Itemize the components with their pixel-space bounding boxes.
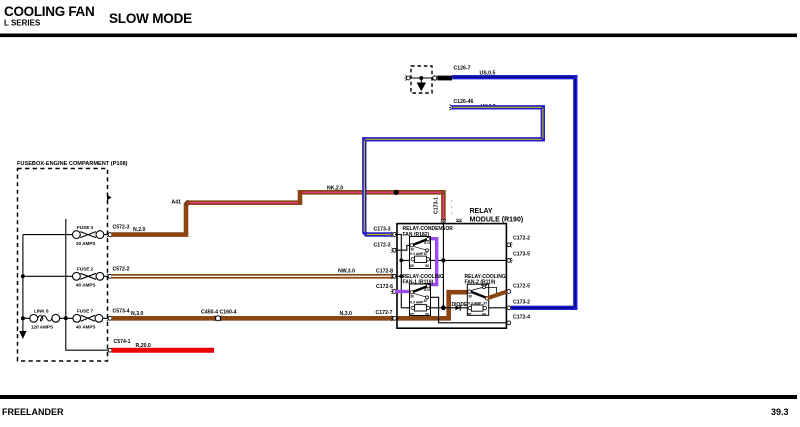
- bottom rule: [0, 395, 797, 399]
- svg-text:0.9 AMP: 0.9 AMP: [410, 300, 424, 304]
- connector C574-1: [106, 339, 130, 353]
- svg-text:20 AMPS: 20 AMPS: [76, 241, 96, 246]
- svg-text:C126-7: C126-7: [454, 66, 471, 72]
- svg-text:86: 86: [425, 264, 429, 268]
- svg-text:85: 85: [410, 264, 414, 268]
- wire internal NK riser from C173-1: [442, 222, 444, 308]
- svg-text:C173-5: C173-5: [513, 252, 530, 258]
- wire internal brown diagonal R119 87 to C172-5: [488, 292, 507, 299]
- connector C450-4 C160-4 inline: [201, 309, 237, 321]
- node NK riser coilrow: [441, 258, 445, 262]
- ground arrow in splice box: [417, 78, 425, 90]
- connector C172-6: [376, 284, 397, 294]
- node ground splice: [419, 76, 423, 80]
- relay R182: [403, 226, 454, 268]
- fusebox edge mark k: [107, 195, 112, 201]
- relay R119: [465, 274, 506, 317]
- svg-text:N,2.0: N,2.0: [133, 227, 146, 233]
- svg-text:C173-3: C173-3: [374, 227, 391, 233]
- top rule: [0, 34, 797, 38]
- svg-text:SLOW MODE: SLOW MODE: [109, 11, 192, 26]
- wire US,0.5 blue from C126-7 to C173-2: [452, 71, 575, 308]
- svg-text:C172-6: C172-6: [376, 284, 393, 290]
- svg-text:FUSE 3: FUSE 3: [77, 225, 94, 230]
- svg-text:0.2 AMP: 0.2 AMP: [410, 252, 424, 256]
- svg-text:86: 86: [482, 312, 486, 316]
- svg-text:120 AMPS: 120 AMPS: [31, 325, 53, 330]
- svg-text:MODULE (R190): MODULE (R190): [470, 217, 524, 224]
- svg-text:N,3.0: N,3.0: [340, 311, 353, 317]
- node A41: [172, 200, 191, 206]
- node midbus-link6: [64, 316, 68, 320]
- wire N,3.0 brown C573-4 to C172-7 and into relay module: [112, 292, 468, 318]
- svg-text:40 AMPS: 40 AMPS: [76, 325, 96, 330]
- connector C173-3: [374, 227, 397, 237]
- node bus-fuse2: [21, 274, 25, 278]
- svg-text:L SERIES: L SERIES: [4, 19, 41, 28]
- wire R,20.0 red C574-1 to alternator: [112, 343, 215, 350]
- svg-text:C172-4: C172-4: [513, 315, 530, 321]
- wire internal R119 87A elbow: [485, 287, 496, 293]
- black sleeve stub at C126-7: [437, 76, 452, 81]
- svg-text:C173-1: C173-1: [434, 197, 440, 214]
- title COOLING FAN: [4, 4, 94, 28]
- relay R118: [403, 274, 444, 317]
- connector stub on module top: [456, 219, 462, 222]
- relay module R190 label: [470, 208, 524, 224]
- svg-text:FUSE 7: FUSE 7: [77, 309, 94, 314]
- connector C173-1 chevron on module top: [441, 219, 447, 222]
- connector C172-5: [507, 283, 530, 293]
- svg-text:85: 85: [468, 312, 472, 316]
- svg-text:A41: A41: [172, 200, 182, 206]
- svg-text:RELAY: RELAY: [470, 208, 493, 215]
- fusebox left bus wire: [22, 235, 24, 331]
- svg-text:87A: 87A: [481, 283, 488, 287]
- svg-text:39.3: 39.3: [771, 407, 789, 417]
- wire fuse2 row: [23, 275, 108, 277]
- relay module R190 box: [397, 224, 506, 329]
- fuse FUSE 3: [73, 225, 104, 246]
- svg-text:87: 87: [424, 299, 428, 303]
- svg-text:N,3.0: N,3.0: [131, 311, 144, 317]
- wire UY,0.5 blue/yellow from C126-46 to C173-3: [364, 104, 543, 234]
- wire link6-fuse7 row: [23, 317, 108, 319]
- svg-text:C172-8: C172-8: [376, 268, 393, 274]
- svg-text:86: 86: [425, 312, 429, 316]
- wire internal C172-3 to pin30 R182: [395, 245, 410, 250]
- svg-text:C172-3: C172-3: [374, 242, 391, 248]
- svg-text:85: 85: [410, 312, 414, 316]
- fusebox bus arrow: [19, 331, 26, 339]
- ghost dashed stub above module: [451, 200, 453, 216]
- wire fuse3 row: [23, 234, 108, 236]
- svg-text:C572-3: C572-3: [113, 225, 130, 231]
- connector C172-7: [376, 310, 397, 321]
- connector C572-3: [106, 225, 129, 238]
- svg-text:FREELANDER: FREELANDER: [2, 407, 64, 417]
- svg-text:30: 30: [410, 247, 414, 251]
- svg-text:FUSEBOX-ENGINE COMPARMENT (P10: FUSEBOX-ENGINE COMPARMENT (P108): [17, 161, 128, 167]
- node riser-coilrow R182: [399, 259, 403, 263]
- svg-text:LINK 6: LINK 6: [34, 309, 49, 314]
- svg-text:40 AMPS: 40 AMPS: [76, 283, 96, 288]
- connector C172-8: [376, 268, 397, 279]
- wire internal purple link R182 87A to R118 87A: [429, 239, 437, 285]
- wire NW,3.0 brown/white C572-2 to C172-8: [112, 268, 394, 276]
- svg-text:C172-2: C172-2: [513, 236, 530, 242]
- wire internal C172-8 stub: [395, 275, 401, 277]
- node bus-link6: [21, 316, 25, 320]
- diode D1: [452, 302, 469, 311]
- wire N,2.0 brown from C572-3 to A41: [112, 203, 187, 235]
- svg-text:C572-2: C572-2: [113, 266, 130, 272]
- svg-text:C450-4 C160-4: C450-4 C160-4: [201, 309, 237, 315]
- svg-text:30: 30: [410, 294, 414, 298]
- node riser-C172-8: [399, 274, 403, 278]
- svg-text:87: 87: [484, 301, 488, 305]
- svg-text:C173-2: C173-2: [513, 299, 530, 305]
- svg-text:C573-4: C573-4: [113, 308, 130, 314]
- fusebox mid bus wire: [66, 219, 108, 350]
- svg-text:NW,3.0: NW,3.0: [338, 268, 355, 274]
- wire NK,2.0 brown/pink from A41 to C173-1: [186, 186, 443, 220]
- connector C126-7: [433, 66, 471, 81]
- connector C172-3: [374, 242, 397, 252]
- connector C172-2: [507, 236, 530, 248]
- svg-text:87: 87: [424, 252, 428, 256]
- wire internal diode row C173-2: [401, 307, 506, 309]
- wire internal purple into R118 pin30: [395, 290, 411, 293]
- wire internal left riser: [400, 250, 402, 308]
- svg-text:C172-5: C172-5: [513, 283, 530, 289]
- fuse FUSE 7: [73, 309, 103, 330]
- svg-text:30: 30: [468, 295, 472, 299]
- fusible link LINK 6: [30, 309, 60, 330]
- node NK junction: [394, 190, 399, 195]
- wire internal C173-3 jog: [395, 235, 401, 251]
- svg-text:87A: 87A: [424, 241, 431, 245]
- svg-text:C574-1: C574-1: [114, 339, 131, 345]
- fuse FUSE 2: [73, 267, 104, 288]
- fusebox P108 dashed box: [18, 169, 108, 362]
- connector C573-4: [106, 308, 129, 321]
- svg-text:FUSE 2: FUSE 2: [77, 267, 94, 272]
- connector C572-2: [106, 266, 129, 279]
- ground splice box at C126-7: [405, 66, 433, 93]
- wire internal R182 coil row to C173-5: [401, 259, 506, 261]
- connector C173-2: [507, 299, 530, 309]
- node NK riser dioderow: [441, 305, 446, 310]
- svg-text:87A: 87A: [424, 288, 431, 292]
- wire internal R118 87 drop to C172-4: [429, 297, 507, 323]
- svg-text:C172-7: C172-7: [376, 310, 393, 316]
- connector C172-4: [507, 315, 530, 325]
- connector C126-46: [449, 99, 474, 110]
- svg-text:COOLING FAN: COOLING FAN: [4, 4, 94, 19]
- svg-text:C126-46: C126-46: [454, 99, 474, 105]
- connector C173-5: [507, 252, 530, 263]
